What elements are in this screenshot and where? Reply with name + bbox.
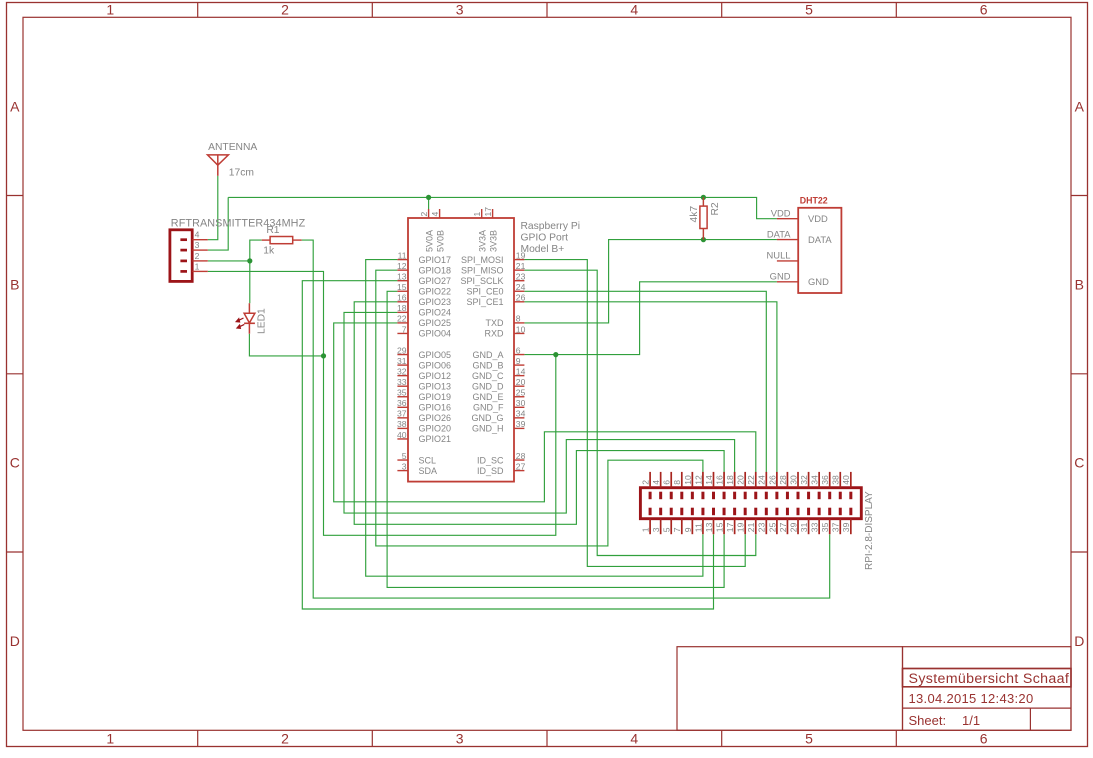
IC left pin 36 GPIO16 [397,398,451,412]
display connector top pin 16 [714,472,724,499]
svg-text:17: 17 [483,207,493,217]
svg-text:5: 5 [805,730,813,746]
svg-text:37: 37 [397,409,407,419]
svg-text:31: 31 [397,356,407,366]
RF connector pin 1 [180,261,207,271]
svg-text:GND: GND [808,276,829,287]
IC left pin 16 GPIO23 [397,293,451,307]
junction 5V at R2 [701,195,706,200]
junction DATA at R2 [701,237,706,242]
svg-text:GPIO19: GPIO19 [419,392,452,402]
svg-text:13: 13 [704,522,714,532]
svg-text:19: 19 [736,522,746,532]
svg-text:23: 23 [516,272,526,282]
DHT22 pin GND [770,271,829,288]
svg-text:GND_G: GND_G [471,413,503,423]
svg-text:1: 1 [106,730,114,746]
svg-text:27: 27 [516,461,526,471]
svg-text:GND_A: GND_A [472,350,503,360]
IC U1 Raspberry Pi GPIO Port Model B+ box [408,218,514,482]
svg-text:GPIO16: GPIO16 [419,403,452,413]
svg-text:17: 17 [725,522,735,532]
svg-text:RPI-2.8-DISPLAY: RPI-2.8-DISPLAY [864,491,875,570]
svg-text:C: C [10,455,20,471]
display connector top pin 4 [651,472,661,499]
svg-text:A: A [1075,98,1085,114]
svg-text:29: 29 [788,522,798,532]
svg-text:24: 24 [757,475,767,485]
svg-text:5: 5 [402,451,407,461]
display connector bottom pin 33 [810,508,820,535]
svg-text:23: 23 [757,522,767,532]
DHT22 pin DATA [767,228,832,245]
svg-text:8: 8 [672,480,682,485]
svg-text:4: 4 [430,212,440,217]
wire R2 top to 5V rail [702,197,704,206]
svg-text:27: 27 [778,522,788,532]
display connector bottom pin 35 [820,508,830,535]
wire IC pin 21 SPI_MISO to display pin 21 [524,270,755,555]
svg-text:25: 25 [767,522,777,532]
display connector bottom pin 1 [641,508,651,535]
IC top pin 2 5V0A [419,209,435,252]
display connector top pin 38 [831,472,841,499]
svg-text:21: 21 [516,261,526,271]
svg-text:SDA: SDA [419,466,438,476]
svg-text:4k7: 4k7 [689,206,700,223]
IC right pin 34 GND_G [471,409,525,423]
svg-text:13: 13 [397,272,407,282]
svg-text:GPIO18: GPIO18 [419,265,452,275]
IC left pin 35 GPIO19 [397,388,451,402]
display connector bottom pin 7 [672,508,682,535]
svg-text:40: 40 [841,475,851,485]
svg-text:RXD: RXD [484,329,504,339]
svg-text:DHT22: DHT22 [800,196,828,206]
display connector bottom pin 21 [746,508,756,535]
svg-text:32: 32 [397,366,407,376]
svg-text:30: 30 [788,475,798,485]
svg-text:5: 5 [662,527,672,532]
display connector top pin 14 [704,472,714,499]
svg-text:1k: 1k [263,246,275,257]
svg-text:VDD: VDD [771,208,791,219]
IC right pin 10 RXD [484,324,525,338]
svg-text:12: 12 [693,475,703,485]
junction LED cathode on GND wire [321,353,326,358]
display connector bottom pin 3 [651,508,661,535]
svg-text:10: 10 [516,324,526,334]
IC left pin 13 GPIO27 [397,272,451,286]
svg-text:31: 31 [799,522,809,532]
svg-text:22: 22 [397,314,407,324]
wire IC pin 15 GPIO22 to display pin 15 [387,291,724,587]
svg-text:6: 6 [662,480,672,485]
svg-text:DATA: DATA [767,228,791,239]
connector RPI-2.8-DISPLAY body [640,488,861,519]
svg-text:GPIO21: GPIO21 [419,434,452,444]
wire IC pin 11 GPIO17 to display pin 11 [366,260,703,577]
svg-text:GPIO24: GPIO24 [419,308,452,318]
svg-text:ANTENNA: ANTENNA [208,142,257,153]
svg-text:3V3B: 3V3B [488,230,498,252]
IC top pin 4 5V0B [430,209,446,252]
svg-text:GPIO12: GPIO12 [419,371,452,381]
resistor R1 [262,237,302,244]
svg-text:11: 11 [398,250,407,260]
svg-text:ID_SD: ID_SD [477,466,504,476]
display connector top pin 6 [662,472,672,499]
antenna symbol [208,155,229,176]
svg-text:39: 39 [516,419,526,429]
svg-text:15: 15 [714,522,724,532]
svg-text:2: 2 [419,212,429,217]
svg-text:GPIO Port: GPIO Port [521,233,569,244]
wire R1 right to display pin 35 [302,240,830,598]
svg-text:36: 36 [397,398,407,408]
svg-text:25: 25 [516,388,526,398]
svg-text:SPI_SCLK: SPI_SCLK [460,276,503,286]
wire 5V rail to IC pin 2 [428,197,430,209]
wire junction up to R1 left [250,240,262,261]
display connector bottom pin 29 [788,508,798,535]
display connector bottom pin 19 [736,508,746,535]
svg-text:GND: GND [770,271,791,282]
svg-text:4: 4 [651,480,661,485]
wire RF pin 3 to 5V rail [208,197,228,250]
svg-text:26: 26 [516,293,526,303]
wire IC pin 18 GPIO24 to display pin 18 [344,312,735,513]
svg-text:35: 35 [820,522,830,532]
svg-text:4: 4 [630,730,638,746]
svg-text:11: 11 [693,523,703,532]
junction 5V at IC pin 2 [426,195,431,200]
display connector top pin 26 [767,472,777,499]
svg-text:38: 38 [397,419,407,429]
IC right pin 14 GND_C [472,366,526,380]
wire IC pin 19 SPI_MOSI to display pin 19 [524,260,745,567]
sensor DHT22 body [798,208,841,293]
wire IC pin 12 GPIO18 to display pin 12 [376,270,703,546]
svg-text:3: 3 [402,461,407,471]
wire IC pin 24 SPI_CE0 to display pin 24 [524,291,766,487]
svg-text:6: 6 [980,2,988,18]
svg-text:21: 21 [746,522,756,532]
svg-text:40: 40 [397,430,407,440]
wire RF pin 2 to junction [208,260,250,262]
svg-text:GND_C: GND_C [472,371,504,381]
IC right pin 8 TXD [486,314,525,328]
svg-text:2: 2 [641,480,651,485]
title block outline [677,647,1071,731]
svg-text:38: 38 [831,475,841,485]
svg-text:14: 14 [516,366,526,376]
display connector top pin 30 [788,472,798,499]
svg-text:GND_E: GND_E [472,392,503,402]
svg-text:2: 2 [195,251,200,261]
svg-text:R2: R2 [710,202,721,215]
IC left pin 37 GPIO26 [397,409,451,423]
frame column labels top [106,2,987,18]
svg-text:B: B [1075,277,1084,293]
svg-text:GPIO06: GPIO06 [419,360,452,370]
display connector top pin 40 [841,472,851,499]
svg-text:GND_H: GND_H [472,424,504,434]
display connector bottom pin 31 [799,508,809,535]
svg-text:Sheet:: Sheet: [909,713,947,728]
display connector top pin 36 [820,472,830,499]
svg-text:34: 34 [810,475,820,485]
svg-text:GPIO27: GPIO27 [419,276,452,286]
svg-text:VDD: VDD [808,213,828,224]
junction GND riser at GND_A [553,352,558,357]
svg-text:33: 33 [397,377,407,387]
svg-text:28: 28 [516,451,526,461]
svg-text:GPIO22: GPIO22 [419,286,452,296]
display connector bottom pin 11 [693,508,703,535]
display connector bottom pin 25 [767,508,777,535]
IC right pin 6 GND_A [472,345,524,359]
IC right pin 39 GND_H [472,419,526,433]
wire IC pin 16 GPIO23 to display pin 16 [354,302,724,525]
svg-text:1: 1 [472,212,482,217]
wire 5V rail [228,197,777,218]
svg-text:35: 35 [397,388,407,398]
svg-text:6: 6 [980,730,988,746]
svg-text:C: C [1074,455,1084,471]
frame row labels left [10,98,20,649]
svg-text:2: 2 [281,730,289,746]
svg-text:GPIO05: GPIO05 [419,350,452,360]
svg-text:TXD: TXD [486,318,505,328]
svg-text:20: 20 [736,475,746,485]
svg-text:5V0B: 5V0B [435,230,445,252]
RF connector pin 3 [180,240,207,250]
wire antenna to RF pin 4 [208,176,218,240]
display connector bottom pin 9 [683,508,693,535]
svg-text:33: 33 [810,522,820,532]
svg-text:GPIO26: GPIO26 [419,413,452,423]
IC left pin 40 GPIO21 [397,430,451,444]
junction RF pin 2 R1 LED [247,258,252,263]
svg-text:32: 32 [799,475,809,485]
svg-text:3: 3 [195,240,200,250]
IC left pin 38 GPIO20 [397,419,451,433]
svg-text:GPIO20: GPIO20 [419,424,452,434]
IC top pin 1 3V3A [472,209,488,252]
svg-text:1: 1 [641,527,651,532]
svg-text:15: 15 [397,282,407,292]
display connector top pin 32 [799,472,809,499]
IC right pin 24 SPI_CE0 [466,282,525,296]
display connector top pin 8 [672,472,682,499]
IC left pin 31 GPIO06 [397,356,451,370]
IC right pin 21 SPI_MISO [461,261,526,275]
display connector top pin 10 [683,472,693,499]
svg-text:18: 18 [397,303,407,313]
svg-text:LED1: LED1 [257,308,268,334]
svg-text:34: 34 [516,409,526,419]
display connector top pin 22 [746,472,756,499]
display connector bottom pin 5 [662,508,672,535]
connector RFTRANSMITTER434MHZ body [170,230,192,282]
svg-text:3V3A: 3V3A [478,230,488,252]
svg-text:GPIO17: GPIO17 [419,255,452,265]
svg-text:D: D [10,633,20,649]
svg-text:9: 9 [516,356,521,366]
svg-text:5V0A: 5V0A [424,230,434,252]
svg-text:SPI_MOSI: SPI_MOSI [461,255,504,265]
IC right pin 20 GND_D [472,377,526,391]
svg-text:GPIO04: GPIO04 [419,329,452,339]
svg-text:1/1: 1/1 [962,713,980,728]
svg-text:GND_D: GND_D [472,381,504,391]
IC right pin 28 ID_SC [477,451,526,465]
frame row labels right [1074,98,1084,649]
svg-text:DATA: DATA [808,234,832,245]
svg-text:39: 39 [841,522,851,532]
IC left pin 18 GPIO24 [397,303,451,317]
wire IC pin 22 GPIO25 to display pin 22 [334,323,756,502]
svg-text:20: 20 [516,377,526,387]
display connector top pin 28 [778,472,788,499]
svg-text:6: 6 [516,345,521,355]
svg-text:ID_SC: ID_SC [477,455,504,465]
svg-text:GND_B: GND_B [472,360,503,370]
IC top pin 17 3V3B [483,207,499,252]
display connector top pin 12 [693,472,703,499]
IC left pin 3 SDA [397,461,437,475]
svg-text:3: 3 [651,527,661,532]
wire TXD pin 8 to DHT22 DATA [524,240,777,323]
display connector bottom pin 17 [725,508,735,535]
svg-text:18: 18 [725,475,735,485]
svg-text:3: 3 [456,2,464,18]
display connector bottom pin 27 [778,508,788,535]
IC right pin 19 SPI_MOSI [461,250,526,264]
svg-text:8: 8 [516,314,521,324]
svg-text:30: 30 [516,398,526,408]
wire junction down to LED anode [249,261,251,303]
svg-text:SPI_CE0: SPI_CE0 [466,286,503,296]
svg-text:D: D [1074,633,1084,649]
svg-text:24: 24 [516,282,526,292]
svg-text:GPIO13: GPIO13 [419,381,452,391]
DHT22 pin NULL [767,250,799,261]
svg-text:1: 1 [106,2,114,18]
svg-text:1: 1 [195,261,200,271]
svg-text:Model B+: Model B+ [521,244,565,255]
svg-text:4: 4 [630,2,638,18]
svg-text:SPI_MISO: SPI_MISO [461,265,504,275]
wire GND_A pin 6 to DHT22 GND [524,282,777,355]
svg-text:29: 29 [397,345,407,355]
svg-text:17cm: 17cm [229,168,254,179]
svg-text:GND_F: GND_F [473,403,504,413]
svg-text:28: 28 [778,475,788,485]
display connector top pin 20 [736,472,746,499]
IC name text Raspberry Pi GPIO Port Model B+ [521,221,581,255]
IC left pin 15 GPIO22 [397,282,451,296]
svg-text:B: B [10,277,19,293]
IC left pin 5 SCL [397,451,436,465]
IC left pin 7 GPIO04 [397,324,451,338]
IC left pin 33 GPIO13 [397,377,451,391]
svg-text:37: 37 [831,522,841,532]
wire RF pin 1 to GND net [208,271,556,535]
IC right pin 23 SPI_SCLK [460,272,525,286]
svg-text:5: 5 [805,2,813,18]
svg-text:16: 16 [397,293,407,303]
svg-text:16: 16 [714,475,724,485]
svg-text:4: 4 [195,230,200,240]
svg-text:3: 3 [456,730,464,746]
wire LED cathode to GND junction [249,334,323,356]
svg-text:26: 26 [767,475,777,485]
svg-text:12: 12 [397,261,407,271]
frame column labels bottom [106,730,987,746]
svg-text:Systemübersicht Schaaf: Systemübersicht Schaaf [909,671,1070,687]
svg-text:RFTRANSMITTER434MHZ: RFTRANSMITTER434MHZ [171,217,306,229]
svg-text:13.04.2015 12:43:20: 13.04.2015 12:43:20 [909,691,1034,706]
svg-text:2: 2 [281,2,289,18]
resistor R2 [700,197,707,239]
svg-text:7: 7 [672,527,682,532]
display connector bottom pin 39 [841,508,851,535]
RF connector pin 4 [180,230,207,240]
display connector top pin 34 [810,472,820,499]
IC right pin 30 GND_F [473,398,526,412]
IC left pin 11 GPIO17 [397,250,451,264]
LED LED1 [236,303,255,334]
svg-text:NULL: NULL [767,250,791,261]
IC right pin 25 GND_E [472,388,525,402]
RF connector pin 2 [180,251,207,261]
display connector bottom pin 15 [714,508,724,535]
svg-text:7: 7 [402,324,407,334]
svg-text:SPI_CE1: SPI_CE1 [466,297,503,307]
svg-text:R1: R1 [266,225,279,236]
IC left pin 32 GPIO12 [397,366,451,380]
IC left pin 29 GPIO05 [397,345,451,359]
display connector bottom pin 23 [757,508,767,535]
display connector top pin 18 [725,472,735,499]
display connector bottom pin 37 [831,508,841,535]
display connector bottom pin 13 [704,508,714,535]
display connector top pin 24 [757,472,767,499]
svg-text:SCL: SCL [419,455,437,465]
svg-text:GPIO23: GPIO23 [419,297,452,307]
svg-text:14: 14 [704,475,714,485]
IC left pin 22 GPIO25 [397,314,451,328]
wire IC pin 26 SPI_CE1 to display pin 26 [524,302,777,488]
svg-text:10: 10 [683,475,693,485]
display connector top pin 2 [641,472,651,499]
svg-text:22: 22 [746,475,756,485]
IC right pin 27 ID_SD [477,461,526,475]
IC left pin 12 GPIO18 [397,261,451,275]
IC right pin 26 SPI_CE1 [466,293,525,307]
wire R2 bottom to DATA net [702,229,704,240]
svg-text:19: 19 [516,250,526,260]
svg-text:36: 36 [820,475,830,485]
DHT22 pin VDD [771,208,828,225]
svg-text:9: 9 [683,527,693,532]
svg-text:GPIO25: GPIO25 [419,318,452,328]
svg-text:Raspberry Pi: Raspberry Pi [521,221,581,232]
IC right pin 9 GND_B [472,356,524,370]
svg-text:A: A [10,98,20,114]
